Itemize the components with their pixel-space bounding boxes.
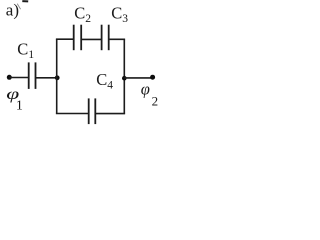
wire node B to right terminal — [124, 77, 152, 79]
wire left riser (node A up to top branch and down to bottom branch) — [56, 39, 58, 113]
svg-text:C4: C4 — [96, 70, 113, 92]
artifact diagonal mark — [17, 4, 20, 10]
wire left terminal to C1 — [9, 77, 28, 79]
wire top branch right segment — [109, 38, 125, 40]
capacitor C4 — [89, 98, 96, 124]
capacitor C3 — [102, 25, 109, 51]
wire top branch left segment — [56, 38, 74, 40]
wire C2 to C3 — [81, 38, 101, 40]
svg-text:C2: C2 — [74, 3, 91, 25]
svg-text:C3: C3 — [111, 3, 128, 25]
artifact mark top edge — [22, 0, 28, 2]
node phi2 terminal dot — [150, 75, 155, 80]
svg-text:C1: C1 — [17, 40, 34, 62]
capacitor C2 — [74, 25, 82, 51]
wire bottom branch right segment — [95, 113, 125, 115]
capacitor C1 — [29, 62, 36, 89]
svg-text:2: 2 — [152, 94, 159, 109]
node A junction dot — [55, 75, 60, 80]
wire C1 to node A — [36, 77, 58, 79]
wire bottom branch left segment — [56, 113, 89, 115]
svg-text:φ: φ — [141, 80, 150, 99]
svg-text:a): a) — [6, 1, 19, 20]
svg-text:1: 1 — [16, 98, 23, 113]
node B junction dot — [122, 76, 127, 81]
wire right riser (top branch down through node B to bottom branch) — [123, 39, 125, 113]
label phi2 — [141, 80, 158, 109]
label phi1 — [6, 86, 23, 114]
node phi1 terminal dot — [7, 75, 12, 80]
